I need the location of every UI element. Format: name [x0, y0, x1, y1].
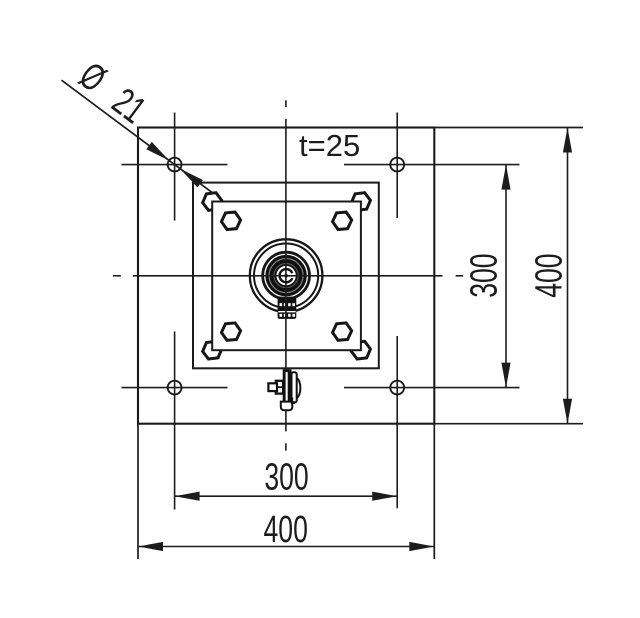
svg-text:400: 400	[264, 507, 308, 550]
fitting right lever	[292, 372, 297, 402]
inner bolt hex N1 top-left	[221, 212, 242, 230]
hub circle 2	[254, 244, 318, 308]
dimension: right 300 line	[505, 165, 507, 388]
fitting body slit	[286, 372, 288, 402]
knurled block dot row 2	[280, 314, 296, 317]
hole H3 bottom-left Ø21 circle	[168, 381, 182, 395]
fitting right bulge	[297, 378, 301, 397]
corner bolt hex B3 bottom-left	[202, 341, 223, 360]
leader arrowhead upper	[146, 142, 169, 161]
hole H2 top-right Ø21 crosshair	[344, 164, 520, 166]
inner bolt hex N3 bottom-left	[221, 322, 242, 340]
dimension: bottom 400 arrows	[138, 542, 434, 551]
dimension: bottom 400 line	[138, 546, 434, 548]
dimension: right 400 arrows	[563, 128, 572, 424]
inner bolt hex N2 top-right	[332, 212, 353, 230]
hole H2 top-right Ø21 circle	[390, 158, 404, 172]
plate bottom edge extension (to 400 dim)	[434, 423, 583, 425]
knurled block divider	[278, 311, 295, 313]
gearbox outer square	[193, 183, 379, 369]
hub outer circle	[250, 239, 323, 312]
knurled block dot row 1	[280, 303, 296, 306]
corner bolt hex B4 bottom-right	[350, 341, 371, 360]
dimension: bottom 300 arrows	[175, 492, 398, 501]
corner bolt hex B2 top-right	[350, 192, 371, 211]
dimension: right 300 extension arrows	[501, 165, 510, 388]
leader line for Ø21	[62, 80, 214, 193]
knurled block below hub	[278, 297, 297, 319]
vertical centerline	[285, 100, 287, 450]
fitting left stem	[268, 383, 277, 391]
hub annulus highlight ring 1	[269, 259, 303, 293]
hole H4 bottom-right Ø21 circle	[390, 381, 404, 395]
svg-text:300: 300	[462, 253, 505, 297]
hub annulus highlight ring 2	[274, 264, 298, 288]
grease fitting assembly below gearbox	[268, 369, 300, 410]
hole H1 top-left Ø21 crosshair	[122, 164, 228, 166]
fitting left nut block	[276, 381, 283, 394]
fitting bottom cap	[281, 402, 293, 411]
svg-text:300: 300	[264, 455, 308, 498]
hole H4 bottom-right Ø21 crosshair	[344, 387, 520, 389]
shaft circlip (C-ring)	[280, 269, 293, 282]
shaft center mark	[284, 274, 288, 278]
plate left edge extension down (to bottom 400 dim)	[137, 424, 139, 559]
leader arrowhead lower	[180, 169, 203, 188]
inner bolt hex N4 bottom-right	[332, 322, 353, 340]
svg-text:400: 400	[527, 253, 570, 297]
dimension: right 400 line	[567, 128, 569, 424]
hub bearing annulus	[271, 260, 301, 290]
base plate outline 400x400	[138, 128, 434, 424]
plate right edge extension down (to bottom 400 dim)	[433, 424, 435, 559]
dimension: bottom 300 line	[175, 495, 398, 497]
fitting body bar	[283, 369, 292, 406]
corner bolt hex B1 top-left	[202, 192, 223, 211]
svg-text:t=25: t=25	[299, 128, 360, 163]
hole H1 top-left Ø21 circle	[168, 158, 182, 172]
plate top edge extension (to 400 dim)	[434, 127, 583, 129]
hub circle 3	[263, 252, 310, 299]
gearbox inner square	[212, 202, 361, 351]
fitting right foot	[292, 398, 295, 403]
hole H3 bottom-left Ø21 crosshair	[122, 387, 228, 389]
horizontal centerline	[113, 275, 463, 277]
